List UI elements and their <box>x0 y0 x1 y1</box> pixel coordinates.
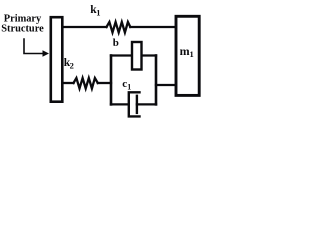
wire to mass <box>156 84 176 86</box>
svg-text:2: 2 <box>70 60 74 70</box>
damper c1 cylinder <box>129 92 140 116</box>
wire <box>63 82 74 84</box>
svg-text:1: 1 <box>190 49 194 59</box>
arrow <box>24 39 44 54</box>
wire <box>98 82 111 84</box>
svg-text:1: 1 <box>127 82 131 91</box>
svg-text:Structure: Structure <box>1 24 44 35</box>
primary structure wall <box>51 17 63 102</box>
svg-text:1: 1 <box>96 7 100 17</box>
svg-text:b: b <box>113 37 119 49</box>
spring k1 <box>107 22 131 33</box>
damper b <box>132 42 142 70</box>
spring k2 <box>74 78 98 89</box>
node left bar <box>110 56 113 105</box>
damper c1 rod <box>137 103 156 105</box>
wire <box>63 26 107 28</box>
wire <box>130 26 176 28</box>
mass m1 <box>176 16 199 95</box>
wire bottom branch <box>111 103 129 105</box>
svg-text:m: m <box>180 44 190 58</box>
damper c1 piston <box>136 96 138 113</box>
wire top branch <box>111 54 156 56</box>
node right bar <box>155 56 158 105</box>
